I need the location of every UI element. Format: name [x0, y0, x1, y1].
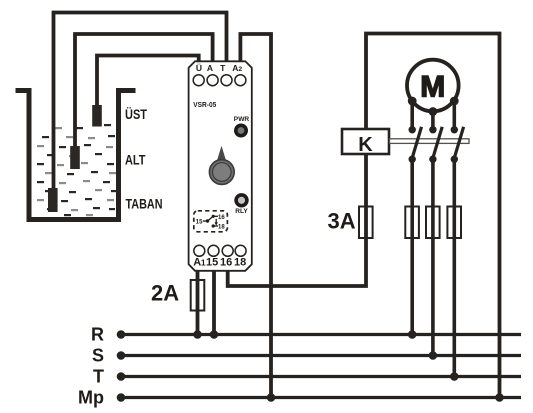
svg-text:S: S — [92, 346, 104, 366]
wire terminal A2 to Mp bus — [240, 34, 271, 398]
svg-text:3A: 3A — [328, 208, 356, 233]
bus R — [121, 333, 521, 336]
motor line L3 — [452, 101, 456, 377]
svg-text:T: T — [93, 367, 104, 387]
svg-text:R: R — [91, 325, 104, 345]
svg-text:15: 15 — [196, 219, 203, 225]
wire UST probe to terminal U — [97, 56, 199, 108]
knob pointer — [217, 146, 226, 161]
module U1 body (VSR-05) — [189, 61, 252, 270]
LED RLY — [236, 195, 247, 206]
water (liquid dashes) — [37, 124, 117, 216]
fuse F1 2A — [191, 280, 205, 311]
bus S — [121, 354, 521, 357]
svg-text:2A: 2A — [151, 280, 179, 305]
fuse F3 — [405, 207, 419, 239]
wire 16 to 3A fuse and K coil — [228, 130, 366, 286]
svg-text:ÜST: ÜST — [125, 106, 147, 122]
fuse wires inside — [412, 207, 454, 239]
motor terminal dots — [408, 97, 459, 116]
wire A1 to R bus through 2A fuse — [196, 270, 200, 335]
svg-text:M: M — [420, 71, 445, 104]
motor M — [407, 60, 459, 112]
bus T — [121, 375, 521, 378]
svg-text:A1151618: A1151618 — [193, 257, 246, 269]
svg-text:VSR-05: VSR-05 — [193, 102, 216, 109]
wire K coil to Mp bus — [366, 34, 500, 398]
motor line L2 — [431, 112, 435, 356]
wire 15 to R bus — [212, 270, 216, 335]
bus Mp — [121, 396, 521, 399]
contactor K coil box — [342, 129, 389, 154]
module bottom terminal circles — [194, 245, 246, 256]
fuse F2 3A — [359, 207, 373, 239]
module top terminal circles — [193, 75, 246, 86]
electrode ALT — [70, 146, 80, 169]
bus start dots — [117, 330, 126, 402]
electrode TABAN — [48, 188, 58, 212]
svg-text:Ü: Ü — [196, 63, 202, 73]
knob — [209, 160, 234, 185]
motor line L1 — [410, 101, 414, 335]
contactor actuator bar — [390, 139, 470, 144]
contactor contact blades — [412, 127, 463, 158]
svg-text:PWR: PWR — [234, 116, 250, 123]
svg-text:Mp: Mp — [78, 388, 104, 408]
wire ALT probe to terminal A — [75, 34, 213, 148]
contactor contact dots — [409, 126, 458, 163]
svg-text:K: K — [358, 134, 373, 156]
svg-text:A: A — [207, 63, 213, 73]
svg-text:T: T — [220, 63, 226, 73]
svg-text:TABAN: TABAN — [126, 196, 163, 212]
relay contact diagram box — [194, 211, 228, 232]
fuse F4 — [426, 207, 440, 239]
wire TABAN probe to terminal T — [54, 13, 227, 191]
tank — [16, 91, 136, 220]
electrode UST — [92, 105, 102, 127]
junction dots — [193, 330, 504, 402]
svg-text:18: 18 — [218, 225, 225, 231]
LED PWR — [234, 124, 248, 138]
fuse F5 — [447, 207, 461, 239]
svg-text:RLY: RLY — [235, 208, 248, 215]
svg-text:ALT: ALT — [125, 152, 146, 168]
relay contact diagram — [196, 215, 226, 231]
svg-text:16: 16 — [218, 215, 225, 221]
